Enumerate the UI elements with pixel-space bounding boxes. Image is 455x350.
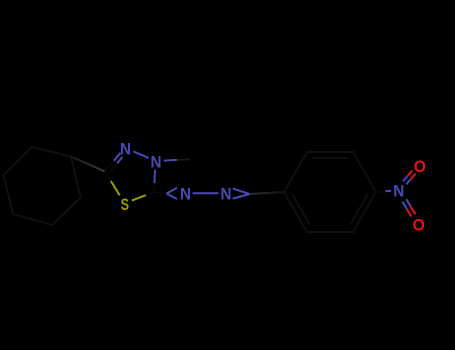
bond C5-S dark half xyxy=(146,192,154,195)
bond Na-Nb xyxy=(193,192,219,194)
bond N=O bottom line2 red xyxy=(411,207,416,215)
bond N4-C5 blue half xyxy=(153,170,156,184)
bond N=O top line2 red xyxy=(408,171,413,176)
bond C5=Na wedge upper xyxy=(167,188,178,194)
bond N4-CH3 blue half xyxy=(164,159,177,162)
bond C2=N3 outer dark half xyxy=(105,161,114,172)
bond N=O top line1 blue xyxy=(406,179,411,184)
cyclohexyl ring (left carbocycle) xyxy=(4,147,81,225)
benzene inner double bond bottom-left xyxy=(292,194,309,224)
bond C2-S dark half xyxy=(105,172,111,182)
bond Nb=CH wedge lower xyxy=(233,194,250,199)
svg-text:N: N xyxy=(180,185,191,204)
benzene inner double bond top xyxy=(313,157,348,159)
svg-text:N: N xyxy=(151,153,162,172)
bond C5=Na wedge lower xyxy=(167,194,178,200)
benzene inner double bond bottom-right xyxy=(351,194,368,224)
bond C2=N3 inner blue half xyxy=(117,157,122,164)
bond N3-N4 xyxy=(133,151,148,158)
bond CH-Cipso benzene xyxy=(250,192,285,194)
bond C5-S olive half xyxy=(132,195,146,200)
svg-text:O: O xyxy=(414,157,426,176)
bond N=O bottom line1 blue xyxy=(402,202,407,210)
bond C2=N3 inner dark half xyxy=(111,163,117,171)
bond N=O bottom line2 blue xyxy=(406,199,410,207)
bond C2-Cipso xyxy=(71,157,105,172)
svg-text:N: N xyxy=(393,181,404,200)
svg-text:S: S xyxy=(121,195,129,214)
svg-text:N: N xyxy=(220,185,231,204)
svg-text:N: N xyxy=(120,139,131,158)
bond N=O top line2 blue xyxy=(403,176,408,181)
svg-text:O: O xyxy=(413,216,425,235)
bond N4-CH3 dark half xyxy=(177,158,190,161)
bond C5=Na dark stub xyxy=(154,192,167,194)
bond Nb=CH wedge upper xyxy=(233,189,250,194)
bond Ar-N dark half xyxy=(376,190,385,193)
bond N=O bottom line1 red xyxy=(407,209,411,216)
bond N=O top line1 red xyxy=(411,174,416,179)
bond Ar-N blue half xyxy=(385,190,391,192)
benzene ring xyxy=(284,152,376,232)
bond N4-C5 dark half xyxy=(153,183,155,192)
bond C2-S olive half xyxy=(111,181,120,195)
bond C2=N3 outer blue half xyxy=(114,153,121,161)
